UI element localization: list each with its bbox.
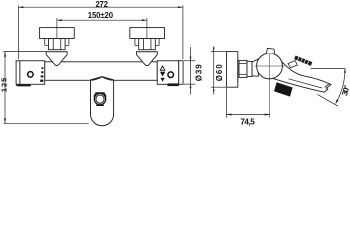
svg-text:74,5: 74,5	[240, 118, 255, 127]
svg-text:Ø39: Ø39	[194, 64, 203, 82]
svg-text:150±20: 150±20	[88, 11, 114, 20]
svg-text:Ø60: Ø60	[215, 64, 224, 82]
svg-text:30°: 30°	[340, 84, 350, 96]
svg-text:125: 125	[0, 78, 8, 92]
svg-text:272: 272	[95, 0, 108, 9]
